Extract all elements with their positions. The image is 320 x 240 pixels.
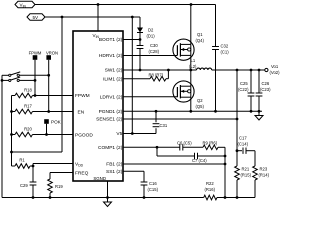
svg-text:C7 (C4): C7 (C4): [192, 158, 207, 163]
svg-text:R22: R22: [206, 181, 214, 186]
svg-text:(R15): (R15): [241, 173, 252, 178]
svg-text:Vo1: Vo1: [271, 64, 279, 69]
svg-text:C30: C30: [150, 43, 158, 48]
svg-text:C32: C32: [221, 44, 229, 49]
svg-text:SS1 (2): SS1 (2): [106, 169, 123, 175]
svg-text:(C14): (C14): [238, 141, 249, 146]
svg-text:FREQ: FREQ: [75, 170, 89, 176]
svg-text:(L2): (L2): [189, 64, 197, 69]
svg-text:(D1): (D1): [147, 34, 156, 39]
svg-text:V5: V5: [116, 131, 122, 137]
svg-text:ILIM1 (2): ILIM1 (2): [103, 76, 123, 82]
svg-text:SW1 (2): SW1 (2): [105, 68, 123, 74]
svg-text:R9 (R6): R9 (R6): [203, 141, 218, 146]
svg-text:(R14): (R14): [259, 173, 270, 178]
svg-text:R1: R1: [19, 158, 25, 163]
svg-text:(Vo2): (Vo2): [270, 70, 281, 75]
svg-text:Q2: Q2: [197, 98, 203, 103]
svg-text:R17: R17: [24, 104, 32, 109]
svg-text:R8 (R7): R8 (R7): [149, 72, 164, 77]
svg-text:FPWM: FPWM: [75, 93, 90, 99]
svg-text:PGOOD: PGOOD: [75, 132, 93, 138]
svg-text:(Q5): (Q5): [196, 104, 205, 109]
svg-text:FB1 (2): FB1 (2): [106, 162, 122, 168]
svg-text:LDRV1 (2): LDRV1 (2): [100, 94, 123, 100]
svg-text:FPWM: FPWM: [29, 51, 42, 56]
svg-text:SENSE1 (2): SENSE1 (2): [96, 117, 123, 123]
svg-text:VRON: VRON: [46, 51, 58, 56]
svg-text:C17: C17: [239, 136, 247, 141]
svg-text:EN: EN: [78, 109, 85, 115]
svg-text:COMP1 (2): COMP1 (2): [98, 145, 123, 151]
svg-text:C6 (C5): C6 (C5): [177, 141, 192, 146]
svg-text:(C1): (C1): [221, 50, 230, 55]
svg-text:L1: L1: [191, 58, 196, 63]
svg-text:C26: C26: [262, 81, 270, 86]
svg-text:C25: C25: [240, 81, 248, 86]
svg-text:(C15): (C15): [148, 187, 159, 192]
svg-text:(Q4): (Q4): [196, 38, 205, 43]
svg-text:(R16): (R16): [205, 187, 216, 192]
svg-text:(C28): (C28): [149, 49, 160, 54]
svg-text:POK: POK: [51, 120, 62, 125]
svg-text:R18: R18: [24, 88, 32, 93]
svg-text:Q1: Q1: [197, 32, 203, 37]
svg-text:R19: R19: [55, 184, 63, 189]
svg-text:BOOT1 (2): BOOT1 (2): [99, 37, 123, 43]
svg-text:(C22): (C22): [238, 87, 249, 92]
svg-text:PGND1 (2): PGND1 (2): [99, 109, 123, 115]
svg-text:C16: C16: [149, 181, 157, 186]
svg-text:R20: R20: [24, 127, 32, 132]
svg-text:SGND: SGND: [93, 176, 106, 181]
svg-text:C29: C29: [20, 183, 28, 188]
svg-text:HDRV1 (2): HDRV1 (2): [99, 53, 123, 59]
svg-text:R23: R23: [260, 167, 268, 172]
svg-text:5V: 5V: [33, 15, 40, 20]
svg-text:R21: R21: [242, 167, 250, 172]
svg-text:D2: D2: [148, 28, 154, 33]
svg-text:(C23): (C23): [260, 87, 271, 92]
svg-text:C31: C31: [160, 123, 168, 128]
